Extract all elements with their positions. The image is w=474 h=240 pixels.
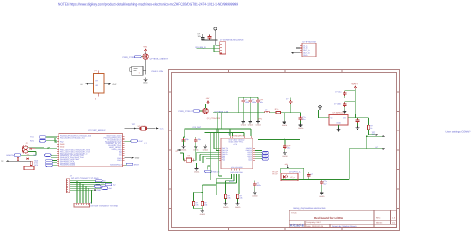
jumper body [94, 74, 105, 93]
cap C10 [321, 180, 323, 192]
ferrite FB [276, 111, 281, 113]
capsule LED1 [262, 155, 269, 158]
IC left pins [57, 136, 125, 165]
out cap [356, 119, 360, 123]
junction dot [202, 192, 203, 193]
conn pin arrows [382, 135, 385, 137]
svg-text:22p: 22p [198, 138, 201, 141]
crystal Y1 [186, 158, 191, 162]
MCU left pins [219, 149, 255, 171]
small box [24, 166, 34, 170]
svg-text:Drawn by: Markus Brown: Drawn by: Markus Brown [332, 225, 357, 228]
svg-text:1: 1 [139, 71, 140, 74]
bottom capsule [126, 163, 133, 166]
svg-text:PF0_OSC: PF0_OSC [193, 126, 202, 129]
frame ticks left [169, 92, 172, 208]
svg-text:GNDA: GNDA [256, 124, 262, 127]
connector ovals [24, 146, 28, 149]
svg-text:22p: 22p [185, 138, 188, 141]
gnd C3 [241, 120, 245, 123]
svg-text:Sheet:: Sheet: [376, 221, 383, 224]
IC U2 body [59, 134, 123, 167]
crystal right tp [156, 127, 159, 129]
svg-text:LED1: LED1 [262, 155, 267, 158]
resistor A1 [192, 201, 194, 205]
svg-text:4u7: 4u7 [323, 182, 326, 185]
gnd C4 [248, 120, 252, 123]
svg-text:Rev:: Rev: [376, 217, 381, 220]
main rail to right connector [304, 149, 350, 180]
svg-text:PWR-1.1/2H: PWR-1.1/2H [152, 70, 164, 73]
diode D1 [17, 157, 19, 160]
connector body vertical [66, 179, 69, 193]
cap Cx2 [194, 138, 198, 142]
wire boot [21, 154, 36, 156]
frame ticks top [228, 70, 341, 73]
MCU body [221, 138, 253, 169]
wire to IC rows [30, 160, 32, 162]
MCU top pins [230, 136, 251, 138]
frame ticks bottom [228, 228, 341, 231]
drop cap right [300, 113, 302, 124]
svg-text:Battery_chip breakdown electri: Battery_chip breakdown electrical item [294, 207, 326, 210]
conn junction [366, 135, 368, 137]
IC right pin labels [104, 135, 123, 167]
wires to connector [197, 45, 220, 52]
cap C9 [283, 145, 287, 149]
svg-text:PA6: PA6 [222, 159, 225, 162]
svg-text:GNDA: GNDA [248, 124, 254, 127]
svg-text:A 73: A 73 [234, 143, 238, 146]
jumper top pin [98, 71, 100, 74]
cap C4 [248, 99, 252, 103]
svg-text:TP?: TP? [372, 133, 375, 136]
svg-text:VSS VSSA B0: VSS VSSA B0 [231, 166, 243, 169]
svg-text:User settings CONN?: User settings CONN? [446, 130, 471, 133]
svg-text:+5V: +5V [143, 45, 147, 48]
svg-text:GND: GND [60, 145, 65, 148]
resistor B [224, 194, 226, 198]
svg-text:OSC: OSC [139, 140, 144, 143]
inductor L1 [265, 111, 270, 112]
opto body [281, 173, 298, 180]
svg-text:SWCLK: SWCLK [212, 170, 220, 173]
svg-text:BOOT0: BOOT0 [7, 154, 15, 157]
barrel jack box [132, 66, 143, 75]
connector J1 body [220, 42, 226, 54]
svg-text:TITLE:: TITLE: [291, 212, 297, 215]
green net box [281, 168, 304, 179]
power symbol VDD [214, 27, 217, 32]
svg-text:GND: GND [303, 54, 308, 57]
svg-text:GND: GND [135, 157, 140, 160]
svg-text:100n: 100n [257, 184, 261, 187]
svg-text:Date: 2020-02-26: Date: 2020-02-26 [306, 225, 324, 228]
regulator wires [319, 110, 363, 118]
svg-text:GNDD: GNDD [223, 206, 229, 209]
green wires into MCU left [184, 113, 252, 180]
svg-text:C?: C? [286, 98, 288, 101]
svg-text:GNDA: GNDA [181, 148, 187, 151]
block body [302, 43, 316, 57]
right resistor [367, 125, 369, 129]
mid rail wire [213, 112, 301, 114]
svg-text:+BATT: +BATT [351, 82, 358, 85]
svg-text:GND: GND [143, 82, 148, 85]
crystal element [141, 127, 146, 131]
swd capsule [205, 170, 212, 173]
svg-text:2: 2 [95, 98, 96, 101]
capsule LED0 [262, 152, 269, 155]
jumper left wire and arrow [86, 83, 93, 85]
regulator gnd [338, 125, 340, 128]
svg-text:STM32F070: STM32F070 [233, 134, 245, 137]
top wire from MCU [258, 139, 300, 144]
resistor vertical [30, 161, 32, 165]
svg-text:GND: GND [337, 121, 342, 124]
opto led symbol [283, 175, 285, 178]
svg-text:B?: B? [376, 146, 378, 149]
svg-text:Company: Me?: Company: Me? [306, 221, 322, 224]
cap right drop [254, 181, 256, 191]
mosfet Q2 [203, 108, 208, 113]
wire vdd stem [202, 32, 218, 46]
mosfet Q1 [143, 54, 148, 59]
block pins [300, 46, 302, 53]
block pin text rows [303, 44, 310, 57]
svg-text:D?: D? [27, 153, 29, 156]
cap Cx1 [182, 138, 186, 142]
svg-text:GNDD: GNDD [235, 206, 241, 209]
conn wires [349, 136, 382, 149]
svg-text:TP_5?: TP_5? [272, 173, 278, 176]
ctrl capsule [134, 55, 141, 58]
svg-text:U?-AMS1117: U?-AMS1117 [333, 112, 346, 115]
svg-text:DO NOT CONNECT TO GND: DO NOT CONNECT TO GND [71, 177, 99, 180]
svg-text:NRST: NRST [134, 164, 140, 167]
svg-text:F?: F? [95, 69, 97, 72]
svg-text:GND GND PB8: GND GND PB8 [230, 171, 242, 174]
capacitor C2 red [208, 35, 212, 39]
drop to gnd left [283, 113, 285, 121]
svg-text:DO NOT CONNECT TO GND: DO NOT CONNECT TO GND [91, 204, 119, 207]
MCU left pin labels [222, 147, 229, 161]
crystal row wire [125, 127, 156, 129]
svg-text:10u: 10u [302, 118, 305, 121]
svg-text:VDDA VREF PF11: VDDA VREF PF11 [228, 140, 243, 143]
MCU top inner labels [228, 138, 244, 146]
svg-text:10k: 10k [227, 197, 230, 200]
svg-text:PWR_CTRL: PWR_CTRL [123, 56, 136, 59]
svg-text:LED2: LED2 [262, 158, 267, 161]
svg-text:GNDA: GNDA [194, 171, 200, 174]
svg-text:SWDIO/PA13: SWDIO/PA13 [110, 164, 121, 167]
svg-text:GND: GND [117, 159, 122, 162]
frame ticks right [397, 92, 400, 208]
svg-text:KiCad-E: KiCad-E [290, 223, 305, 227]
capacitor C bulk [201, 34, 205, 40]
svg-text:D?: D? [311, 173, 313, 176]
stub wires [255, 151, 262, 159]
svg-text:10k: 10k [239, 197, 242, 200]
resistor C [236, 194, 238, 198]
osc capsule [131, 140, 138, 143]
svg-text:GNDA: GNDA [203, 148, 209, 151]
regulator U3 body [329, 115, 348, 125]
svg-text:C? 100n: C? 100n [334, 103, 341, 106]
gnd arrow mid [125, 157, 131, 159]
wires rows [70, 181, 112, 204]
svg-text:10k: 10k [195, 204, 198, 207]
svg-text:Q?_CTRL/SOT: Q?_CTRL/SOT [207, 117, 221, 120]
svg-text:GNDD: GNDD [252, 194, 258, 197]
sheet frame inner [172, 73, 397, 228]
MCU right pin labels [246, 147, 253, 161]
svg-text:PA1/USART2_RTS/ADC_IN1: PA1/USART2_RTS/ADC_IN1 [60, 137, 85, 140]
svg-text:SCK: SCK [34, 164, 39, 167]
junction dots on bus [229, 128, 230, 129]
box ground [144, 78, 148, 81]
tp arrow left wire [7, 160, 30, 162]
svg-text:100n: 100n [252, 101, 256, 104]
title block box [289, 210, 396, 227]
cap C5 [256, 99, 260, 103]
svg-text:100n: 100n [245, 101, 249, 104]
cap right of opto [308, 172, 310, 180]
svg-text:C? 10u: C? 10u [335, 91, 341, 94]
pwr flag dark [318, 105, 321, 110]
block wire 2 with arrow [292, 52, 300, 54]
svg-text:PB15/SPI2_MOSI: PB15/SPI2_MOSI [60, 164, 76, 167]
wires from connector [28, 148, 44, 155]
cap C3 [241, 99, 245, 103]
svg-text:U?_x: U?_x [290, 176, 294, 179]
svg-text:BOOT: BOOT [229, 180, 235, 183]
row capsules [95, 179, 102, 182]
svg-text:PWR_CTRL2: PWR_CTRL2 [179, 110, 193, 113]
rail wire top [239, 97, 258, 112]
diode row [30, 148, 32, 150]
svg-text:U? CHIP_MAIN-X: U? CHIP_MAIN-X [88, 129, 106, 132]
svg-text:GNDD: GNDD [200, 213, 206, 216]
gnd below crystal [196, 163, 198, 167]
ctrl2 capsule [193, 110, 200, 113]
svg-text:10k: 10k [204, 204, 207, 207]
svg-text:LED0: LED0 [262, 152, 267, 155]
svg-text:GNDD: GNDD [319, 195, 325, 198]
crystal wires [180, 140, 196, 160]
tp arrow left [178, 149, 181, 151]
svg-text:S?: S? [176, 150, 178, 153]
sheet frame outer [169, 70, 400, 231]
batt rail [345, 89, 356, 114]
block wire 1 [296, 47, 300, 49]
svg-text:10u: 10u [287, 147, 290, 150]
svg-text:GNDD: GNDD [282, 155, 288, 158]
gnd A [194, 206, 203, 209]
boot capsule [14, 154, 21, 157]
svg-text:Q?+BSS_138/SOT: Q?+BSS_138/SOT [150, 57, 169, 60]
svg-text:GNDA: GNDA [282, 124, 288, 127]
third gnd [203, 145, 207, 148]
svg-text:GND: GND [97, 189, 102, 192]
svg-text:J? CONN-01X04_MALE: J? CONN-01X04_MALE [220, 38, 244, 41]
gnd C5 [256, 120, 260, 123]
svg-text:GNDA: GNDA [193, 148, 199, 151]
svg-text:10u: 10u [260, 101, 263, 104]
wires down from MCU bottom [194, 174, 240, 201]
svg-text:RS-485_B: RS-485_B [196, 46, 207, 49]
title block [289, 207, 396, 228]
svg-text:+5V: +5V [206, 97, 210, 100]
bottom connector row [74, 203, 90, 207]
svg-text:1k: 1k [370, 127, 372, 130]
svg-text:GNDA: GNDA [298, 127, 304, 130]
svg-text:Red board for LORA: Red board for LORA [314, 216, 344, 220]
capsule LED2 [262, 158, 269, 161]
resistor A2 [201, 201, 203, 205]
wire mosfet drain down [145, 52, 147, 74]
IC left pin labels [60, 135, 91, 167]
jumper right wire and arrow [104, 83, 111, 85]
svg-text:GNDA: GNDA [241, 124, 247, 127]
jumper bottom pin [98, 93, 100, 96]
wire capsule to gate [141, 56, 143, 58]
svg-text:NOTE6 https://www.digikey.com/: NOTE6 https://www.digikey.com/product-de… [58, 1, 239, 6]
